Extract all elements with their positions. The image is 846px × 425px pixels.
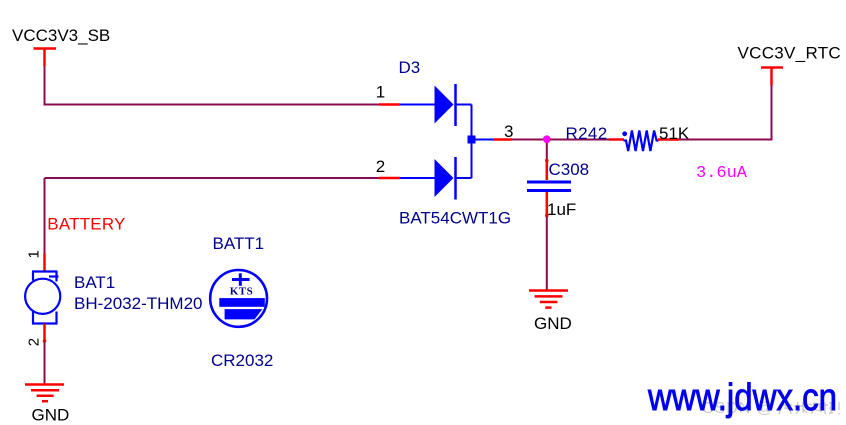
diode D3a triangle xyxy=(435,86,454,124)
wire from battery corner to diode pin 2 xyxy=(45,177,380,179)
diode D3a cathode lead xyxy=(456,104,472,106)
svg-text:D3: D3 xyxy=(399,58,421,77)
pin 2 of D3 (red segment) xyxy=(379,177,400,180)
battery BAT1 symbol xyxy=(25,272,60,324)
wire node to C308 xyxy=(546,143,548,160)
resistor R242 pin 2 red xyxy=(658,138,679,141)
power bar VCC3V_RTC xyxy=(761,68,783,86)
resistor R242 pin 1 red xyxy=(609,138,624,141)
svg-text:BH-2032-THM20: BH-2032-THM20 xyxy=(74,294,203,313)
svg-text:R242: R242 xyxy=(566,124,608,143)
svg-text:C308: C308 xyxy=(549,160,590,179)
svg-text:3.6uA: 3.6uA xyxy=(696,164,748,183)
svg-text:BAT1: BAT1 xyxy=(74,273,115,292)
wire battery to GND xyxy=(44,342,46,385)
battery BAT1 pin 1 red xyxy=(43,254,46,272)
blue junction square xyxy=(468,136,476,144)
diode D3b triangle xyxy=(435,159,454,197)
wire from VCC3V3_SB to diode pin 1 xyxy=(45,66,380,105)
battery BAT1 pin 2 red xyxy=(43,324,46,342)
svg-text:2: 2 xyxy=(376,157,385,176)
svg-text:BAT54CWT1G: BAT54CWT1G xyxy=(399,209,511,228)
svg-text:KTS: KTS xyxy=(230,285,254,297)
C308 pin 1 end dot xyxy=(545,159,549,163)
resistor R242 pin1 dot xyxy=(622,131,627,136)
BATT1 bar 2 xyxy=(225,309,263,319)
svg-text:GND: GND xyxy=(534,314,572,333)
C308 pin 2 end dot xyxy=(545,214,549,218)
capacitor C308 plates xyxy=(527,182,571,191)
wire corner to battery pin 1 xyxy=(44,178,46,254)
battery holder BATT1 circle xyxy=(210,270,267,327)
BATT1 plus sign xyxy=(232,273,250,286)
blue vertical joining the two cathodes xyxy=(471,105,473,179)
wire node to R242 xyxy=(550,139,609,141)
C308 pin 1 red xyxy=(546,160,549,180)
svg-text:VCC3V3_SB: VCC3V3_SB xyxy=(12,26,110,45)
BATT1 bar 1 xyxy=(219,298,264,307)
diode D3b cathode lead xyxy=(456,177,472,179)
diode D3b cathode bar xyxy=(454,157,457,200)
ground symbol (middle) xyxy=(529,291,568,308)
diode D3a cathode bar xyxy=(454,84,457,126)
wire pin3 to node xyxy=(512,139,544,141)
pin 3 of D3 (red segment) xyxy=(493,138,512,141)
svg-text:GND: GND xyxy=(32,406,70,425)
svg-text:3: 3 xyxy=(504,122,513,141)
wire C308 to GND xyxy=(546,217,548,291)
svg-text:2: 2 xyxy=(26,338,43,346)
svg-text:CR2032: CR2032 xyxy=(211,351,273,370)
diode D3a anode lead xyxy=(400,104,435,106)
svg-text:BATT1: BATT1 xyxy=(213,234,265,253)
C308 pin 2 red xyxy=(546,192,549,217)
pin 3 blue lead xyxy=(472,139,494,141)
resistor R242 zigzag xyxy=(624,131,659,152)
ground symbol (left) xyxy=(25,385,64,402)
battery pin 2 end dot xyxy=(43,339,47,343)
svg-text:1: 1 xyxy=(376,83,385,102)
svg-text:1uF: 1uF xyxy=(547,200,576,219)
diode D3b anode lead xyxy=(400,177,435,179)
power bar VCC3V3_SB xyxy=(34,49,57,67)
svg-text:www.jdwx.cn: www.jdwx.cn xyxy=(647,377,837,419)
svg-text:1: 1 xyxy=(26,250,43,258)
pin 1 of D3 (red segment) xyxy=(379,103,400,106)
node junction dot (magenta) xyxy=(543,135,551,143)
svg-text:BATTERY: BATTERY xyxy=(47,215,125,234)
watermark hanzi strokes xyxy=(779,402,839,415)
wire R242 to VCC3V_RTC xyxy=(679,86,772,140)
svg-text:VCC3V_RTC: VCC3V_RTC xyxy=(738,44,841,63)
